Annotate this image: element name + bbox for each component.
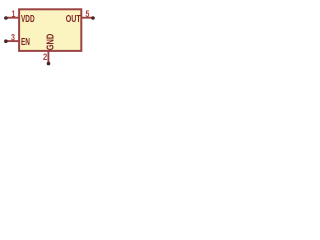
svg-text:5: 5	[86, 9, 90, 19]
pin 2 end dot	[47, 62, 51, 66]
pin 3 end dot	[4, 39, 8, 43]
svg-text:VDD: VDD	[21, 12, 35, 24]
svg-text:2: 2	[43, 51, 47, 62]
svg-text:OUT: OUT	[66, 13, 81, 25]
pin 5 wire (OUT)	[82, 17, 94, 19]
pin 1 end dot	[4, 16, 8, 20]
pin 5 end dot	[91, 16, 95, 20]
pin 1 wire (VDD)	[6, 17, 19, 19]
pin 2 wire (GND)	[47, 51, 49, 63]
IC body U1	[19, 9, 81, 51]
svg-text:1: 1	[12, 9, 16, 19]
svg-text:GND: GND	[45, 33, 56, 50]
svg-text:3: 3	[11, 33, 15, 43]
svg-text:EN: EN	[21, 35, 30, 47]
pin 3 wire (EN)	[6, 40, 19, 42]
